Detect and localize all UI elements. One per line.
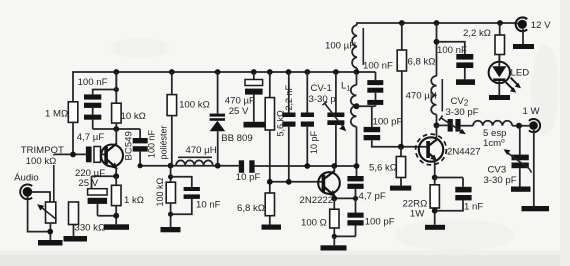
inductor 100uH choke [325,25,363,72]
label TRIMPOT [21,145,64,167]
LED [489,55,530,96]
node emitter 2N4427 [432,175,438,181]
node 22R bottom [432,208,438,214]
wire: jack sleeve to ground [533,130,535,206]
ground 5.6k bias [390,186,411,191]
svg-text:100 µH: 100 µH [325,41,356,52]
node collector BC549 [113,126,119,132]
capacitor 470uF electrolytic [225,72,263,122]
trimpot pointer line [53,154,55,202]
svg-text:2,2 nF: 2,2 nF [284,84,294,110]
capacitor 4.7pF [347,176,385,202]
wire: emitter node 2N4427 [435,177,463,179]
capacitor 100nF poliester [133,125,169,165]
svg-text:330 kΩ: 330 kΩ [75,223,106,234]
wire: CV2 to antenna coil [461,125,473,127]
node rail2 100k [169,69,175,75]
resistor 5.6kohm bias [369,147,406,186]
capacitor 10pF series [236,160,261,183]
resistor 2.2kohm [463,23,505,62]
wire: coil to output jack [512,125,529,127]
ground pot [38,240,63,246]
svg-text:CV2: CV2 [451,96,469,108]
node 100k lower bottom [168,212,173,217]
svg-text:100 Ω: 100 Ω [301,217,327,228]
ground 6.8k divider [262,225,282,230]
capacitor 2.2nF [282,72,295,182]
node rail2 BB809 [215,69,221,75]
wire: filtered supply rail y72 [73,72,376,102]
resistor 1Mohm [45,102,78,155]
svg-text:2,2 kΩ: 2,2 kΩ [463,28,491,39]
ground 22R [425,225,445,230]
trimmer CV-1 [309,72,347,166]
ground 1k/220uF [104,224,129,230]
node divider/base [267,179,273,185]
trimmer CV3 [484,126,532,187]
svg-text:100 pF: 100 pF [365,216,395,227]
capacitor 100pF tank [364,106,428,147]
node collector 2N4427 [434,122,440,128]
wire: BC549 emitter node [92,175,117,177]
svg-text:100 nF: 100 nF [363,60,393,71]
svg-text:1W: 1W [410,209,425,220]
node rail2 470uF [251,69,257,75]
svg-text:1 kΩ: 1 kΩ [124,195,144,206]
trimmer CV2 [437,96,479,134]
node L1 line / osc line [354,163,360,169]
node rail2 10pF [304,69,310,75]
resistor 6.8kohm divider [237,193,275,225]
inductor 5 esp antenna coil [473,121,512,149]
resistor 6.8kohm top [397,23,435,147]
node 1k bottom [113,213,119,219]
capacitor 4.7uF [77,132,105,162]
svg-text:10 pF: 10 pF [309,130,319,154]
resistor 10kohm [112,72,146,129]
svg-text:2N4427: 2N4427 [447,146,481,157]
transistor Q3 2N4427 [416,125,481,177]
capacitor 100nF top-left [78,72,119,129]
ground 330k [64,236,88,242]
resistor 100kohm upper [167,72,210,166]
node 100k lower top [168,174,173,179]
wire: 2N2222 base line [270,181,322,183]
svg-text:poliéster: poliéster [159,125,169,159]
node emitter BC549 [113,173,119,179]
node base/1M/330k [70,152,76,158]
svg-text:10 kΩ: 10 kΩ [121,111,146,122]
svg-text:10 nF: 10 nF [196,199,221,210]
ground 470uF [244,122,268,128]
resistor 100ohm [301,198,339,236]
node 100k/470uH left [168,163,174,169]
svg-text:TRIMPOT: TRIMPOT [21,145,64,156]
svg-text:12 V: 12 V [531,20,551,31]
svg-text:4,7 pF: 4,7 pF [359,191,386,202]
ground for LED [489,95,510,100]
node rail2 L1/100uH [354,69,360,75]
node rail2 10k [113,69,119,75]
node 4.7pF bottom [353,196,358,201]
svg-text:CV3: CV3 [488,164,507,175]
resistor 5.6kohm divider [265,72,285,193]
capacitor 220uF electrolytic [75,168,107,216]
svg-text:3-30 pF: 3-30 pF [446,107,479,118]
svg-text:CV-1: CV-1 [311,83,332,94]
wire: 220uF to 1k bottom [98,215,117,217]
ground 100ohm [321,236,347,250]
node emitter 2N2222 [331,196,337,202]
node 100ohm bottom [332,234,337,239]
wire: BC549 collector node [93,128,140,130]
node 100nF right tap [434,39,440,45]
varicap diode BB809 [210,72,253,166]
inductor L1 with tap [341,72,357,176]
svg-text:25 V: 25 V [229,106,249,117]
svg-text:100 kΩ: 100 kΩ [26,156,57,167]
capacitor 100pF emitter [347,198,394,236]
svg-text:BC549: BC549 [124,131,135,160]
node poliester bottom [138,163,143,168]
resistor 1kohm [112,176,144,224]
wire: BC549 base line [54,153,86,155]
ground output jack [522,206,550,211]
node rail2 2.2nF [286,69,292,75]
node on 12V rail at 2.2k [497,20,503,26]
wire: jack to pot [32,192,50,202]
wire: +12V top rail [357,23,517,25]
capacitor 10nF [171,177,221,214]
svg-text:100 nF: 100 nF [437,45,467,56]
svg-text:100 kΩ: 100 kΩ [179,100,210,111]
node 2.2nF/base [286,179,292,185]
inductor 470uH right [406,23,443,125]
wire: tap to 100nF/100pF [357,105,376,107]
svg-text:100 pF: 100 pF [373,117,403,128]
svg-text:470 µH: 470 µH [186,145,217,156]
ground for 12V jack [513,29,534,49]
svg-text:1 W: 1 W [523,106,541,117]
svg-text:2N2222: 2N2222 [300,195,334,206]
svg-text:6,8 kΩ: 6,8 kΩ [408,57,436,68]
svg-text:100 nF: 100 nF [147,129,157,158]
ground 100k lower [161,227,181,232]
capacitor 100nF tank [363,60,393,106]
node on 12V rail at 6.8k [399,20,405,26]
transistor Q2 2N2222 [300,166,340,206]
resistor 330kohm [69,202,106,236]
transistor Q1 BC549 [101,129,135,176]
svg-text:6,8 kΩ: 6,8 kΩ [237,203,265,214]
inductor 470uH left [176,145,217,166]
connector audio jack [14,173,39,200]
wire: after 10pF series [255,165,356,167]
svg-text:25 V: 25 V [78,178,98,189]
node BB809/470uH right [215,163,221,169]
node rail2 CV1 [333,69,339,75]
svg-text:1 MΩ: 1 MΩ [45,109,68,120]
wire: oscillator line y165.7 [140,165,239,167]
resistor 100kohm lower [155,166,176,227]
svg-text:5,6 kΩ: 5,6 kΩ [369,163,397,174]
svg-text:BB 809: BB 809 [221,133,252,144]
capacitor 10pF vertical [301,72,319,166]
capacitor 100nF right [437,42,474,80]
potentiometer TRIMPOT 100k [37,202,56,240]
svg-text:LED: LED [511,68,530,79]
node antenna/CV3 [516,123,522,129]
node collector 2N2222 [331,163,337,169]
resistor 22R 1W [403,178,440,225]
wire: jack sleeve down [28,197,51,232]
svg-text:4,7 µF: 4,7 µF [77,132,105,143]
svg-text:Áudio: Áudio [14,173,39,184]
node base 2N4427 [398,144,404,150]
wire: emitter node 2N2222 [334,197,355,199]
ground 100nF right [456,79,475,85]
node 10pF bottom [304,163,310,169]
connector output 1W jack [523,106,541,132]
svg-text:100 nF: 100 nF [78,77,108,88]
node on 12V rail at 470uH drop [434,20,440,26]
connector 12V jack [516,17,551,31]
wire: 100ohm/100pF bottom [334,235,355,237]
svg-text:3-30 p: 3-30 p [309,94,336,105]
svg-text:10 pF: 10 pF [236,172,261,183]
node pot bottom [47,229,53,235]
svg-text:1 nF: 1 nF [464,201,483,212]
svg-text:3-30 pF: 3-30 pF [484,175,517,186]
capacitor 1nF [435,178,484,213]
ground CV3 [511,187,531,192]
svg-text:100 kΩ: 100 kΩ [155,177,165,206]
svg-text:470 µH: 470 µH [406,91,437,102]
node rail2 5.6k [267,69,273,75]
node L1 tap [354,103,360,109]
